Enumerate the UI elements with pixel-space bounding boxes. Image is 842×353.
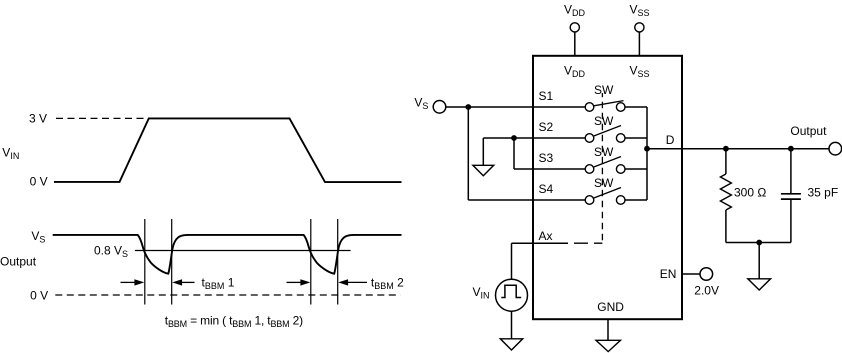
svg-text:S4: S4 [539, 182, 554, 196]
ground (load) [748, 279, 771, 290]
svg-text:S3: S3 [539, 151, 554, 165]
svg-text:VS: VS [414, 95, 428, 111]
wire VIN source to ground [511, 311, 513, 339]
wire GND pin to ground [607, 319, 609, 340]
svg-text:300 Ω: 300 Ω [734, 185, 766, 199]
svg-text:VIN: VIN [2, 146, 19, 162]
switch SW1 [533, 101, 647, 112]
VS source terminal [433, 101, 446, 114]
junction resistor node [723, 146, 729, 152]
EN terminal [700, 268, 713, 281]
svg-text:VDD: VDD [564, 63, 586, 79]
wire EN pin [682, 273, 700, 275]
svg-text:Output: Output [0, 255, 37, 269]
svg-text:tBBM 2: tBBM 2 [371, 275, 404, 291]
wire D to output [647, 148, 829, 150]
output waveform [53, 235, 402, 274]
wire load bottom [726, 242, 791, 244]
svg-text:SW: SW [594, 176, 614, 190]
wire to ground (S2 branch) [482, 138, 484, 165]
svg-text:0.8 VS: 0.8 VS [94, 244, 128, 260]
arrow right into marker 1 [121, 279, 145, 285]
ground (S2/S3 branch) [473, 165, 494, 175]
svg-text:Output: Output [790, 124, 827, 138]
svg-text:0 V: 0 V [30, 174, 48, 188]
dashed control line vertical [601, 93, 603, 243]
marker line 4 [337, 219, 339, 305]
switch SW3 [533, 157, 647, 174]
wire VS node down to S4 [467, 107, 469, 200]
svg-text:3 V: 3 V [29, 111, 47, 125]
arrow left into marker 2 [172, 279, 194, 285]
switch SW4 [533, 188, 647, 205]
svg-text:S1: S1 [539, 89, 554, 103]
svg-text:Ax: Ax [539, 229, 553, 243]
capacitor 35 pF [781, 149, 801, 243]
svg-text:D: D [666, 133, 675, 147]
Vin waveform [54, 118, 402, 182]
svg-text:VIN: VIN [473, 285, 490, 301]
switch SW2 [533, 126, 647, 143]
svg-text:SW: SW [594, 145, 614, 159]
arrow right into marker 3 [287, 279, 311, 285]
dashed 0V line (output) [55, 294, 400, 296]
marker line 3 [310, 219, 312, 305]
resistor 300 ohm [720, 149, 731, 243]
arrow left into marker 4 [338, 279, 367, 285]
svg-text:35 pF: 35 pF [808, 185, 839, 199]
wire ground node down to S3 [513, 138, 515, 169]
svg-text:tBBM = min ( tBBM 1, tBBM 2): tBBM = min ( tBBM 1, tBBM 2) [165, 313, 303, 329]
pulse source VIN [496, 279, 528, 311]
junction S2/S3 ground node [511, 135, 517, 141]
svg-text:VDD: VDD [564, 3, 586, 19]
svg-text:0 V: 0 V [30, 289, 48, 303]
svg-text:VS: VS [31, 229, 45, 245]
VSS supply terminal [635, 23, 644, 56]
wire S2 pin [483, 137, 533, 139]
wire S4 pin [468, 199, 533, 201]
wire Ax pin [512, 242, 569, 244]
IC box U1 [533, 56, 682, 319]
svg-text:2.0V: 2.0V [694, 284, 719, 298]
wire output bus [646, 107, 648, 200]
svg-text:EN: EN [660, 267, 677, 281]
marker line 2 [171, 219, 173, 305]
junction D node [644, 146, 650, 152]
wire Ax down to VIN source [511, 243, 513, 279]
svg-text:tBBM 1: tBBM 1 [202, 275, 235, 291]
0.8 VS threshold line [135, 250, 351, 252]
dashed control line horizontal (Ax) [568, 242, 602, 244]
marker line 1 [144, 219, 146, 305]
junction load ground node [756, 240, 762, 246]
svg-text:SW: SW [594, 114, 614, 128]
svg-text:GND: GND [597, 300, 624, 314]
ground (VIN source) [500, 339, 522, 350]
wire to load ground [758, 243, 760, 279]
svg-text:S2: S2 [539, 120, 554, 134]
junction VS node [465, 104, 471, 110]
dashed 3V reference line [56, 117, 149, 119]
svg-text:SW: SW [594, 83, 614, 97]
Output terminal [829, 142, 842, 155]
ground (GND pin) [596, 340, 621, 351]
wire VS to S1 [446, 106, 533, 108]
wire S3 pin [514, 168, 533, 170]
svg-text:VSS: VSS [630, 3, 650, 19]
junction capacitor node [788, 146, 794, 152]
VDD supply terminal [570, 23, 579, 56]
svg-text:VSS: VSS [630, 63, 650, 79]
